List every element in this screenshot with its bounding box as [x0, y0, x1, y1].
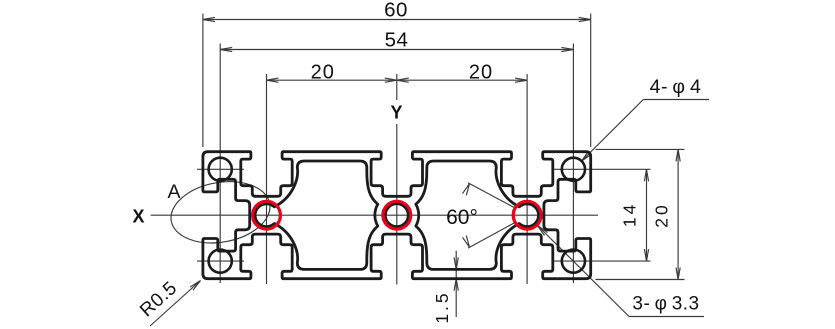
extension line top-right corner hole — [553, 168, 651, 170]
leader R0.5 (corner radius) — [136, 278, 200, 326]
svg-text:1.5: 1.5 — [432, 290, 452, 323]
svg-text:20: 20 — [469, 61, 493, 83]
svg-text:60: 60 — [384, 0, 408, 22]
centreline top-left corner hole (horizontal) — [197, 168, 244, 170]
corner hole top-left — [209, 158, 232, 181]
red highlight ring centre hole — [383, 201, 411, 229]
Y axis — [390, 74, 402, 285]
corner hole bottom-right — [562, 250, 585, 273]
svg-text:A: A — [167, 181, 180, 203]
left inner cavity with keyhole to left hole — [255, 161, 378, 269]
centreline right corner holes (vertical) — [572, 44, 574, 284]
svg-text:4- φ 4: 4- φ 4 — [650, 76, 702, 98]
X axis — [132, 207, 598, 227]
svg-text:20: 20 — [652, 202, 672, 227]
svg-text:3- φ 3.3: 3- φ 3.3 — [632, 294, 699, 315]
angle dimension 60 degrees — [446, 183, 515, 248]
centreline left hole (vertical) — [266, 74, 268, 284]
dimension 1.5 (wall thickness) — [432, 251, 458, 324]
dimension 20 right (hole pitch) — [397, 61, 527, 83]
svg-text:20: 20 — [311, 61, 335, 83]
dimension 20 left (hole pitch) — [267, 61, 397, 83]
dimension 14 (corner hole vertical spacing) — [620, 169, 649, 261]
corner hole bottom-left — [209, 250, 232, 273]
centreline bottom-left corner hole (horizontal) — [197, 260, 244, 262]
centre screw hole — [385, 204, 408, 227]
dimension 20 (profile height) — [596, 149, 685, 279]
svg-text:54: 54 — [385, 28, 409, 51]
svg-text:60°: 60° — [446, 206, 478, 229]
corner hole top-right — [562, 158, 585, 181]
red highlight ring left hole — [253, 201, 281, 229]
dimension 60 (overall width) — [203, 0, 591, 147]
dimension 54 (corner hole spacing) — [220, 28, 573, 51]
svg-text:Y: Y — [390, 103, 402, 123]
leader 3-dia3.3 (centre holes) — [538, 226, 705, 317]
svg-text:X: X — [132, 207, 144, 227]
centreline left corner holes (vertical) — [219, 44, 221, 284]
extension line bottom-right corner hole — [553, 260, 651, 262]
right inner cavity with keyhole to right hole — [416, 161, 539, 269]
red highlight ring right hole — [513, 201, 541, 229]
profile outer contour with T-slots — [203, 152, 591, 279]
leader 4-dia4 (corner holes) — [582, 76, 710, 161]
detail view ellipse A — [166, 174, 275, 250]
centreline right hole (vertical) — [526, 74, 528, 284]
svg-text:14: 14 — [620, 202, 640, 227]
